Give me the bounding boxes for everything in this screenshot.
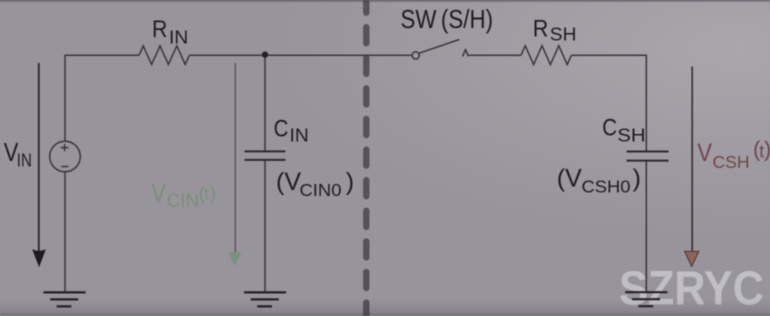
- svg-text:): ): [346, 168, 354, 196]
- svg-text:CSH0: CSH0: [582, 177, 631, 197]
- svg-text:(V: (V: [557, 165, 582, 193]
- svg-text:SH: SH: [550, 24, 577, 44]
- svg-text:V: V: [697, 139, 712, 167]
- svg-text:C: C: [602, 114, 617, 141]
- svg-text:SH: SH: [617, 125, 645, 145]
- svg-text:CSH: CSH: [713, 152, 750, 172]
- svg-text:(V: (V: [276, 168, 301, 196]
- svg-text:IN: IN: [17, 151, 32, 171]
- svg-text:V: V: [151, 180, 166, 208]
- svg-text:IN: IN: [169, 28, 188, 48]
- svg-text:C: C: [274, 116, 289, 143]
- svg-text:SW (S/H): SW (S/H): [401, 4, 494, 34]
- svg-text:): ): [210, 182, 217, 204]
- svg-text:R: R: [152, 16, 167, 43]
- svg-text:): ): [764, 136, 770, 161]
- svg-text:IN: IN: [290, 126, 309, 146]
- svg-text:CIN0: CIN0: [300, 180, 342, 200]
- svg-text:): ): [633, 165, 641, 193]
- svg-text:CIN: CIN: [167, 191, 199, 212]
- svg-text:R: R: [533, 16, 549, 43]
